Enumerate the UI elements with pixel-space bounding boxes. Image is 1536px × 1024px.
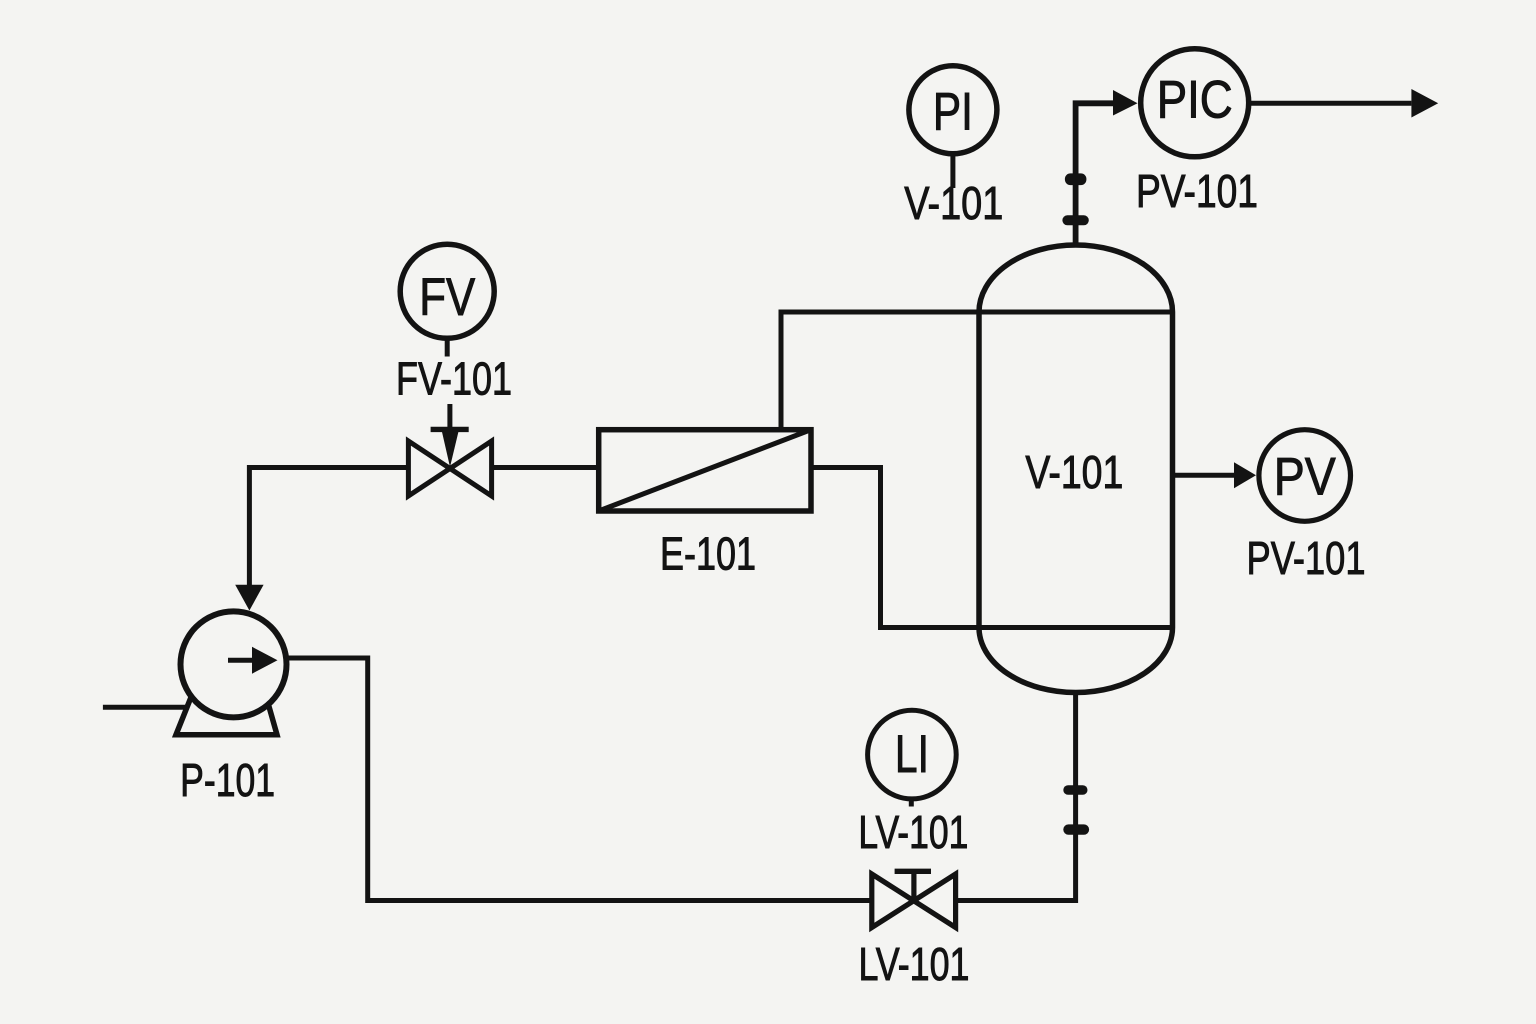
wire: LV valve to vessel bottom vertical line bbox=[958, 693, 1076, 901]
valve FV-101 bowtie bbox=[408, 441, 491, 496]
svg-text:FV-101: FV-101 bbox=[396, 353, 512, 405]
wire: PIC output line to right arrow bbox=[1250, 101, 1412, 106]
pump P-101 casing circle bbox=[181, 611, 287, 717]
instrument FV circle bbox=[400, 244, 494, 338]
PI circle stub bbox=[950, 156, 955, 188]
wire: vessel right outlet to PV bbox=[1174, 473, 1235, 478]
valve FV-101 actuator stem bbox=[447, 404, 452, 432]
svg-text:PIC: PIC bbox=[1157, 71, 1233, 130]
svg-text:PV-101: PV-101 bbox=[1136, 165, 1258, 217]
signal marker on top line 2 bbox=[1062, 215, 1088, 225]
heat exchanger E-101 body bbox=[599, 430, 811, 511]
heat exchanger E-101 diagonal bbox=[599, 430, 811, 511]
FV circle stub bbox=[445, 340, 450, 357]
instrument PIC circle bbox=[1141, 49, 1249, 157]
signal marker on top line 1 bbox=[1065, 173, 1087, 185]
svg-text:LV-101: LV-101 bbox=[858, 806, 968, 858]
svg-text:LV-101: LV-101 bbox=[859, 938, 970, 990]
instrument LI circle bbox=[868, 710, 957, 799]
arrowhead PIC output right bbox=[1411, 89, 1438, 118]
vessel V-101 shell bbox=[979, 245, 1173, 693]
vessel V-101 top tangent chord bbox=[979, 310, 1173, 315]
pump internal flow arrow bbox=[228, 658, 254, 663]
wire: E-101 outlet right, down, into vessel bottom shoulder bbox=[811, 468, 978, 628]
svg-text:PV-101: PV-101 bbox=[1247, 532, 1366, 584]
valve FV-101 actuator crossbar bbox=[431, 427, 469, 432]
svg-text:E-101: E-101 bbox=[660, 527, 756, 579]
svg-text:FV: FV bbox=[419, 268, 476, 327]
valve LV-101 bowtie bbox=[872, 874, 956, 928]
wire: pump outlet right, down, bottoms line to LV valve bbox=[287, 658, 870, 901]
svg-text:P-101: P-101 bbox=[180, 754, 275, 806]
svg-text:V-101: V-101 bbox=[904, 177, 1003, 229]
arrowhead into PIC bbox=[1113, 90, 1138, 116]
wire: top feed line from corner down-arrow to FV valve bbox=[249, 468, 406, 587]
valve LV-101 actuator stem bbox=[911, 871, 916, 898]
wire: E-101 top vapor line up and right into vessel top shoulder bbox=[781, 312, 978, 430]
wire: feed inlet to pump suction bbox=[103, 705, 205, 710]
LI circle stub bbox=[909, 799, 914, 807]
wire: vessel top line up to PIC corner bbox=[1076, 103, 1114, 243]
wire: FV valve to E-101 inlet bbox=[494, 465, 599, 470]
svg-text:PI: PI bbox=[933, 83, 973, 142]
signal marker on bottom line 2 bbox=[1063, 824, 1089, 834]
signal marker on bottom line 1 bbox=[1063, 785, 1087, 794]
vessel V-101 bottom tangent chord bbox=[979, 625, 1173, 630]
valve FV-101 actuator arrowhead bbox=[442, 432, 459, 468]
svg-text:LI: LI bbox=[895, 725, 929, 784]
arrowhead into pump top bbox=[235, 585, 263, 611]
pump P-101 base trapezoid bbox=[176, 696, 277, 735]
instrument PV circle bbox=[1259, 430, 1351, 522]
valve LV-101 actuator T-bar bbox=[895, 869, 931, 874]
arrowhead into PV bbox=[1234, 462, 1256, 488]
instrument PI circle bbox=[909, 66, 997, 154]
svg-text:PV: PV bbox=[1274, 448, 1337, 507]
svg-text:V-101: V-101 bbox=[1025, 446, 1123, 498]
